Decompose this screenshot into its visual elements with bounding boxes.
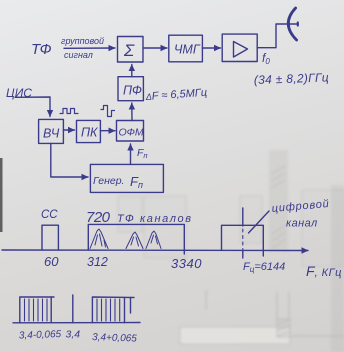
wire ЦИС to ВЧ — [15, 97, 50, 117]
svg-text:f0: f0 — [262, 51, 270, 66]
text 3,4-0,065 — [19, 329, 62, 341]
hatched band right — [92, 297, 134, 323]
svg-text:720: 720 — [86, 209, 111, 226]
text 3,4 — [66, 329, 81, 341]
spectrum hump 2 — [126, 232, 143, 249]
wire ВЧ to Генер — [51, 143, 88, 177]
text Fц=6144 — [243, 261, 285, 274]
block ЧМГ (FM generator) — [169, 35, 203, 62]
svg-text:ΔF ≈ 6,5МГц: ΔF ≈ 6,5МГц — [144, 87, 207, 103]
text F, КГц — [306, 263, 342, 279]
svg-text:Σ: Σ — [123, 41, 135, 60]
block ОФМ (phase modulator) — [117, 121, 144, 142]
generator block Генер Fп — [90, 164, 163, 192]
block ПК — [77, 120, 101, 142]
node digital channel rectangle — [222, 225, 264, 256]
background bleed-through shapes (decorative) — [118, 150, 344, 352]
svg-text:групповой: групповой — [61, 36, 104, 46]
svg-text:3,4: 3,4 — [66, 329, 81, 341]
pointer line to цифровой канал — [249, 211, 270, 233]
svg-text:3340: 3340 — [171, 256, 202, 271]
center tick 3,4 — [72, 295, 74, 323]
node СС rectangle — [42, 225, 58, 250]
svg-text:СС: СС — [41, 209, 58, 221]
text цифровой — [271, 198, 330, 215]
text ТФ — [31, 41, 52, 58]
text групповой — [61, 36, 104, 46]
svg-text:ТФ каналов: ТФ каналов — [117, 213, 193, 225]
summer block Σ — [118, 37, 144, 63]
text СС — [41, 209, 58, 221]
text 60 — [44, 254, 59, 269]
wire ПФ to Σ — [131, 65, 133, 77]
waveform glyph 1 — [60, 109, 78, 114]
svg-text:3,4+0,065: 3,4+0,065 — [92, 332, 138, 345]
text 3340 — [171, 256, 202, 271]
svg-text:ТФ: ТФ — [31, 41, 52, 58]
wire Σ to ЧМГ — [144, 47, 168, 49]
hatched band left — [20, 297, 54, 323]
node 720 ТФ channels rectangle — [88, 224, 184, 254]
svg-text:ЧМГ: ЧМГ — [174, 43, 201, 57]
spectrum hump 3 — [146, 231, 161, 249]
dashed center line — [242, 208, 244, 258]
text 720 — [86, 209, 111, 226]
wire amplifier to antenna — [257, 23, 297, 48]
svg-text:60: 60 — [44, 254, 59, 269]
svg-text:(34 ± 8,2)ГГц: (34 ± 8,2)ГГц — [254, 70, 330, 87]
wire ВЧ to ПК — [63, 129, 74, 131]
waveform glyph 2 — [101, 106, 115, 117]
baseline of detail spectrum — [13, 322, 140, 324]
frequency axis — [2, 249, 308, 252]
text 3,4+0,065 — [92, 332, 138, 345]
svg-text:Генер.: Генер. — [93, 175, 124, 187]
spectrum hump 1 — [90, 229, 108, 249]
text ЦИС — [6, 86, 32, 100]
wire ОФМ to ПФ — [131, 103, 133, 121]
text ΔF≈6,5МГц — [144, 87, 207, 103]
wire Генер to ОФМ — [130, 144, 132, 164]
wire ЧМГ to amplifier — [202, 47, 220, 49]
wire ПК to ОФМ — [100, 130, 115, 132]
text ТФ каналов — [117, 213, 193, 225]
svg-text:Fц=6144: Fц=6144 — [243, 261, 285, 274]
svg-text:канал: канал — [286, 218, 318, 230]
svg-text:ОФМ: ОФМ — [119, 127, 144, 139]
wire ТФ to Σ — [64, 47, 115, 49]
antenna — [288, 8, 296, 40]
svg-text:ВЧ: ВЧ — [43, 127, 60, 141]
svg-text:3,4-0,065: 3,4-0,065 — [19, 329, 62, 341]
text f0 — [262, 51, 270, 66]
text (34±8,2)ГГц — [254, 70, 330, 87]
svg-text:ПК: ПК — [81, 126, 98, 140]
svg-text:ПФ: ПФ — [123, 84, 142, 98]
block ПФ (band filter) — [118, 77, 143, 101]
text канал — [286, 218, 318, 230]
text 312 — [87, 255, 108, 269]
svg-text:Fп: Fп — [137, 147, 148, 160]
svg-text:Fп: Fп — [130, 174, 143, 190]
text сигнал — [64, 50, 93, 60]
svg-text:312: 312 — [87, 255, 108, 269]
block ВЧ — [39, 119, 64, 143]
amplifier block — [222, 34, 257, 61]
svg-text:сигнал: сигнал — [64, 50, 93, 60]
text Fп label — [137, 147, 148, 160]
